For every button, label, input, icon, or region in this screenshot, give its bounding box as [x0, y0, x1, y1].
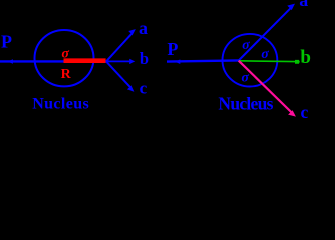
wire: scattered ray a (right diagram)	[239, 7, 292, 61]
svg-text:R: R	[61, 67, 72, 82]
svg-text:a: a	[299, 0, 308, 10]
arrowhead of ray a (left diagram)	[128, 29, 136, 35]
wire: scattered ray c (left diagram)	[106, 61, 132, 89]
svg-text:σ: σ	[242, 38, 250, 53]
arrowhead of ray b (left diagram)	[129, 59, 135, 64]
svg-text:c: c	[301, 102, 309, 118]
nucleus circle (right diagram)	[223, 34, 278, 87]
svg-text:P: P	[167, 39, 178, 59]
wire: scattered ray a (left diagram)	[106, 32, 133, 62]
svg-text:σ: σ	[241, 70, 249, 85]
radius line R (red, from centre to scattering point)	[64, 58, 106, 63]
arrowhead of ray c (left diagram)	[127, 85, 134, 92]
arrowhead of vector P (left diagram, pointing left)	[8, 59, 13, 64]
svg-text:b: b	[300, 47, 311, 68]
arrowhead of ray c (right diagram, magenta)	[288, 110, 296, 116]
arrowhead of vector P (right diagram, pointing left)	[175, 59, 180, 64]
wire: scattered ray b (left diagram)	[106, 60, 131, 62]
arrowhead of ray a (right diagram)	[287, 4, 295, 11]
svg-text:Nucleus: Nucleus	[218, 94, 273, 114]
arrowhead of ray b (right diagram, green)	[295, 60, 300, 64]
nucleus circle (left diagram)	[35, 30, 94, 86]
wire: scattered ray c (right diagram, magenta)	[239, 61, 294, 114]
svg-text:a: a	[139, 18, 148, 38]
wire: scattered ray b (right diagram, green)	[239, 60, 295, 63]
wire: incident beam axis P (left diagram)	[0, 60, 106, 62]
svg-text:b: b	[140, 49, 149, 68]
svg-text:σ: σ	[61, 47, 69, 62]
svg-text:Nucleus: Nucleus	[32, 96, 88, 113]
svg-text:P: P	[1, 32, 12, 52]
svg-text:σ: σ	[261, 47, 269, 62]
wire: incident beam axis P (right diagram)	[167, 60, 239, 61]
svg-text:c: c	[140, 79, 148, 98]
